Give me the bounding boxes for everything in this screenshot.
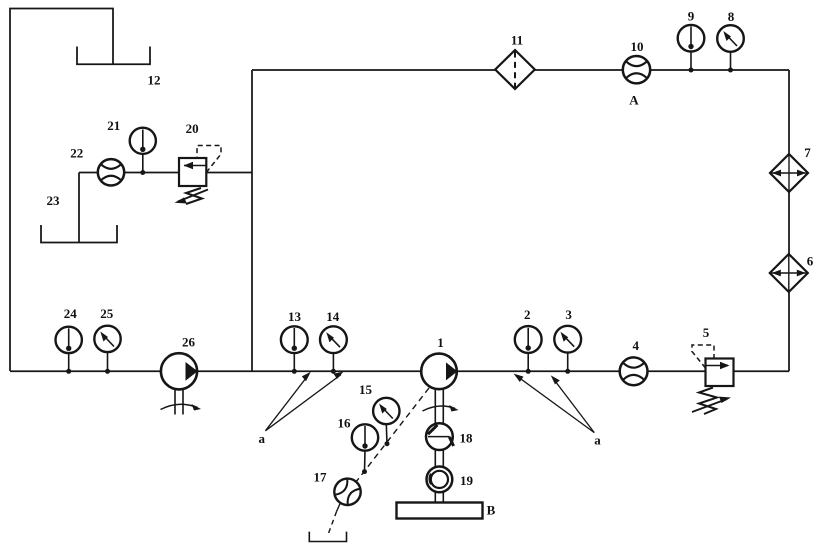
svg-text:15: 15 <box>359 382 373 397</box>
svg-text:23: 23 <box>47 193 61 208</box>
svg-text:B: B <box>487 503 496 518</box>
node junction gauge3/main line <box>565 369 570 374</box>
svg-text:25: 25 <box>100 306 114 321</box>
gauge 8 <box>717 25 744 70</box>
shaft 19-base <box>434 493 436 503</box>
svg-text:12: 12 <box>148 73 161 88</box>
svg-text:21: 21 <box>107 118 120 133</box>
pump 1 <box>421 354 458 424</box>
gauge 13 <box>281 326 308 371</box>
svg-text:17: 17 <box>314 470 328 485</box>
wire down to tank 23 <box>78 173 80 243</box>
base B <box>397 503 483 519</box>
gauge 25 <box>94 326 120 372</box>
svg-text:10: 10 <box>631 39 644 54</box>
svg-text:a: a <box>594 433 601 448</box>
wire bottom main line <box>10 370 789 372</box>
coupling 19 <box>427 467 453 493</box>
pump 26 <box>161 353 202 414</box>
node junction gauge8/top line <box>728 68 733 73</box>
gauge 14 <box>320 326 347 371</box>
flow meter 4 <box>620 357 648 385</box>
gauge 3 <box>554 326 581 371</box>
shaft 18-19 <box>434 450 436 467</box>
svg-text:a: a <box>259 431 266 446</box>
svg-text:7: 7 <box>804 145 811 160</box>
flow meter 17 <box>329 473 366 510</box>
tank 23 <box>41 225 117 243</box>
node junction gauge21/branch line <box>140 170 145 175</box>
svg-text:4: 4 <box>633 338 640 353</box>
svg-text:18: 18 <box>460 431 474 446</box>
svg-text:22: 22 <box>70 146 83 161</box>
drain below 17 <box>337 503 341 512</box>
svg-text:2: 2 <box>524 307 531 322</box>
svg-text:16: 16 <box>338 416 352 431</box>
pointer arrows a left <box>265 375 341 431</box>
node junction gauge9/top line <box>689 68 694 73</box>
filter 11 <box>495 50 535 89</box>
pointer arrows a right <box>517 376 595 433</box>
gauge 15 <box>373 398 399 444</box>
svg-text:11: 11 <box>511 33 523 48</box>
wire right vertical <box>788 70 790 371</box>
gauge 16 <box>352 424 378 471</box>
svg-text:19: 19 <box>460 473 474 488</box>
drain dashed line <box>356 388 429 482</box>
wire top line <box>252 69 789 71</box>
gauge 9 <box>678 25 705 70</box>
node junction gauge24/main line <box>66 369 71 374</box>
wire left vertical <box>251 70 253 371</box>
gauge 24 <box>55 327 81 372</box>
cooler 7 <box>770 154 808 192</box>
gauge 2 <box>515 326 542 371</box>
svg-text:24: 24 <box>64 306 78 321</box>
svg-text:5: 5 <box>703 325 710 340</box>
wire branch to valve 20 <box>79 172 252 174</box>
valve 5 <box>692 345 734 414</box>
svg-text:26: 26 <box>182 335 196 350</box>
svg-text:A: A <box>629 93 639 108</box>
node junction gauge15/drain line <box>385 441 390 446</box>
flow meter 22 <box>98 159 124 185</box>
node junction gauge25/main line <box>105 369 110 374</box>
svg-text:6: 6 <box>807 254 814 269</box>
wire top-left loop <box>10 9 113 372</box>
svg-text:1: 1 <box>437 335 444 350</box>
gauge 21 <box>130 128 156 173</box>
node junction gauge13/main line <box>292 369 297 374</box>
valve 20 <box>175 146 222 205</box>
svg-text:8: 8 <box>728 9 735 24</box>
node junction gauge16/drain line <box>362 469 367 474</box>
svg-text:14: 14 <box>326 309 340 324</box>
node junction gauge14/main line <box>331 369 336 374</box>
svg-text:20: 20 <box>186 121 199 136</box>
motor 18 <box>426 423 454 450</box>
drain tank <box>309 532 346 542</box>
flow meter 10 <box>623 56 650 83</box>
cooler 6 <box>770 254 808 292</box>
tank 12 <box>77 47 150 65</box>
svg-text:13: 13 <box>288 309 302 324</box>
svg-text:3: 3 <box>565 307 572 322</box>
node junction gauge2/main line <box>526 369 531 374</box>
svg-text:9: 9 <box>688 9 695 24</box>
